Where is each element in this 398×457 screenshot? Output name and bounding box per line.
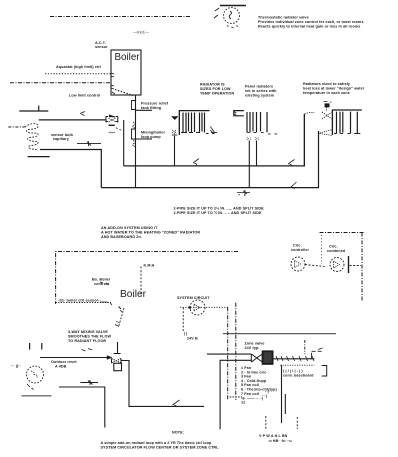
svg-text:···|: ···| [262,394,267,398]
pipe valve outlet down [123,120,125,166]
svg-text:12: 12 [241,401,245,405]
pipe long supply gray [223,333,336,335]
wire dotted aquastat line [45,73,111,75]
valve handle bar [109,124,115,126]
pipe crossing slash bottom [173,400,180,407]
wire dashed drops bottom [265,416,267,430]
thermostat T1 dashed circle [224,8,240,24]
baseboard stub left [30,343,42,350]
pipe crossing slash 3 [291,182,297,189]
boiler B1 box [111,50,141,95]
svg-text:7 Fan coil: 7 Fan coil [241,392,259,396]
pump P1 dashed circle [190,300,205,315]
arrow mark to valve V1 [80,112,85,116]
svg-text:Bo. Boiler: Bo. Boiler [92,278,111,282]
node 4 label [214,8,219,18]
svg-text:2-PIPE SIZE IT UP TO 2½ IN. .: 2-PIPE SIZE IT UP TO 2½ IN. ..... AND SP… [174,207,265,211]
pipe return left run [40,150,101,188]
svg-text:temperature in each zone: temperature in each zone [303,91,350,95]
pipe return main run [101,131,318,188]
wire pump1 drop [182,308,184,332]
wire verticals dash-dot pair [227,307,229,400]
pipe hot supply L2 [39,119,106,121]
svg-text:controls: controls [94,282,109,286]
pipe R2 drop long [248,141,250,188]
wire dash-dot drop to element [304,340,306,354]
pipe crossing slash 1 [193,159,199,166]
sensor capillary coil [8,126,25,128]
svg-text:| |: | | [184,332,187,336]
svg-text:combined: combined [327,249,346,253]
TRV R3 lower connector [320,130,333,136]
circulator bracket lower [132,129,136,139]
svg-text:( | / | \ | - | ): ( | / | \ | - | ) [283,369,303,373]
svg-text:RADIATOR IS: RADIATOR IS [200,83,225,87]
svg-text:V P W A N L BN: V P W A N L BN [259,434,288,438]
R1 right stub [210,127,214,133]
flow arrow return [80,380,98,385]
svg-text:SIZED FOR LOW: SIZED FOR LOW [200,87,231,91]
boiler pins [111,73,115,94]
svg-text:heat loss at lower "design" wa: heat loss at lower "design" water [303,87,365,91]
zone valve actuator [263,351,273,364]
svg-text:Boiler: Boiler [115,52,141,63]
air vent triangle R1 [172,117,179,120]
TRV dots R1 [172,130,177,135]
svg-text:SMOOTHES THE FLOW: SMOOTHES THE FLOW [68,335,111,339]
wire pump1 dotted horiz [180,306,228,308]
svg-text:24V typ.: 24V typ. [245,346,260,350]
pipe crossing slash 2 [288,160,295,167]
pipe zone drops right [281,365,283,423]
svg-text:24V B: 24V B [187,337,198,341]
svg-text:A HOT WATER TO THE HEATING "ZO: A HOT WATER TO THE HEATING "ZONED" RADIA… [101,231,200,235]
dotted line under element [280,364,314,366]
svg-text:Radiators sized to satisfy: Radiators sized to satisfy [303,82,351,86]
wire dash-dot right [320,233,365,302]
svg-text:existing system: existing system [245,94,275,98]
svg-text:Provides individual zone contr: Provides individual zone control for eac… [258,20,364,24]
pump P2 top dashed circle [291,257,305,271]
wire dash-dot left loop [56,252,238,305]
svg-text:sensor: sensor [95,45,108,49]
floor line gray [21,395,51,397]
svg-text:controller: controller [291,248,309,252]
3-way valve body [112,359,122,364]
svg-text:AN ADD-ON SYSTEM USING IT: AN ADD-ON SYSTEM USING IT [101,226,158,230]
brace right [322,366,327,377]
wire dotted vertical to pumpA [321,235,323,264]
svg-text:K.M.H: K.M.H [144,264,155,268]
pipe riser from boiler [135,95,137,188]
pipe supply main run [124,114,305,166]
R2 valve dots [247,138,259,141]
baseboard fin element [273,358,315,360]
arrow marks to valve [82,349,93,352]
marks left of boiler [100,282,112,305]
pump P3 top dashed circle [330,258,344,272]
svg-text:Mixing/boiler: Mixing/boiler [141,131,166,135]
svg-text:·S1· boiler ctrl sensor··: ·S1· boiler ctrl sensor·· [58,299,101,303]
TRV R3 head [325,104,330,108]
wire dashed boiler to valve [119,308,125,327]
svg-text:Outdoor reset: Outdoor reset [51,360,77,364]
zone valve pipes [207,353,251,355]
valve actuator box [114,363,122,370]
svg-text:Thermostatic radiator valve: Thermostatic radiator valve [258,16,309,20]
flow arrow supply left [77,141,101,146]
svg-text:Low limit control: Low limit control [69,94,100,98]
svg-text:TEMP OPERATION: TEMP OPERATION [200,92,234,96]
radiator R1 [179,111,209,135]
wire dashed connector list [230,396,242,398]
svg-text:A 4DB: A 4DB [55,365,67,369]
svg-text:Circ.: Circ. [293,244,302,248]
union S mark lower [133,141,136,147]
baseboard end elbow [312,351,322,359]
svg-text:—IGI1—: —IGI1— [133,30,149,35]
svg-text:set in series with: set in series with [245,89,277,93]
wire dash-dot low limit line [10,82,111,84]
pipe R3 supply riser [303,114,305,166]
svg-text:Boiler: Boiler [120,289,147,300]
sensor bulb bottom left [27,366,44,383]
pipe R2 drop short [256,141,258,166]
svg-text:conv. baseboard: conv. baseboard [283,373,314,377]
wire dash-dot control line top [50,16,190,18]
zone valve body [251,354,262,362]
pipe valve outlet loop [122,361,205,407]
radiator R2 [247,112,267,132]
pipe boiler outlet diagonal [115,90,133,96]
svg-text:Panel radiators: Panel radiators [245,85,273,89]
flow arrow return bottom [237,190,250,196]
svg-text:loop pump: loop pump [141,135,161,139]
svg-text:2-PIPE SIZE IT UP TO ¾ IN. ..: 2-PIPE SIZE IT UP TO ¾ IN. ..... AND SPL… [174,211,262,215]
pipe stub L1 [19,110,48,112]
svg-text:Zone valve: Zone valve [245,342,265,346]
svg-text:Aquastat (high limit) ctrl: Aquastat (high limit) ctrl [56,65,101,69]
svg-text:··· ||··: ··· ||·· [11,364,21,368]
svg-text:NOTE:: NOTE: [172,431,184,435]
3-way valve stem [114,342,121,354]
svg-text:Circ.: Circ. [329,245,338,249]
wire dashed KMH drop [140,267,142,297]
svg-text:A simple add-on radiant loo: A simple add-on radiant loop with a 2 YR… [101,441,213,445]
pipe stub B [28,156,50,158]
svg-text:capillary: capillary [53,137,70,141]
svg-text:AND BASEBOARD Zn.: AND BASEBOARD Zn. [101,235,142,239]
svg-text:3-WAY MIXING VALVE: 3-WAY MIXING VALVE [68,330,108,334]
thermostat T1 top line [220,5,246,7]
wire dotted bottom of loop [56,302,111,304]
svg-text:SYSTEM CIRCULATOR FLOW CENT: SYSTEM CIRCULATOR FLOW CENTER OR SYSTEM … [101,446,220,450]
svg-text:tank fitting: tank fitting [141,106,161,110]
svg-text:TO RADIANT FLOOR: TO RADIANT FLOOR [68,339,106,343]
mixing valve V1 [106,117,108,123]
pipe return bottom left [59,387,105,428]
svg-text:SYSTEM CIRCUIT: SYSTEM CIRCUIT [177,296,210,300]
pipe supply to valve [40,357,111,359]
air separator bracket [234,111,244,116]
valve tank fitting bracket upper [132,101,136,110]
radiator R3 [332,110,361,135]
union S mark upper [133,122,136,128]
svg-text:Reacts quickly to internal hea: Reacts quickly to internal heat gain or … [258,25,360,29]
svg-text:·o HB· ·ln ··u: ·o HB· ·ln ··u [268,439,292,443]
pipe R1 drop [174,136,176,166]
